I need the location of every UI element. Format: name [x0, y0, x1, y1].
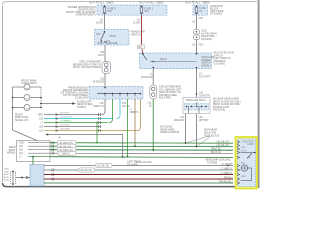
- svg-text:SYSTEM: SYSTEM: [207, 161, 217, 164]
- front lamp bulb 2: [24, 95, 30, 101]
- svg-text:G100: G100: [4, 180, 10, 182]
- svg-text:FRONT: FRONT: [15, 114, 24, 116]
- power distribution center PDC box: [97, 5, 167, 15]
- svg-text:L7 18BK/YL: L7 18BK/YL: [60, 121, 72, 123]
- tail lamp internal switch: [241, 152, 256, 159]
- svg-text:REAR OF ENG: REAR OF ENG: [77, 103, 93, 106]
- svg-text:DIMMER: DIMMER: [202, 60, 212, 62]
- lamp wires: [13, 87, 42, 108]
- svg-text:30A: 30A: [144, 10, 149, 13]
- connector ticks on flasher outputs: [52, 169, 54, 181]
- lamp feed rail: [40, 87, 42, 108]
- svg-text:18VT: 18VT: [98, 54, 104, 57]
- svg-text:12 RD: 12 RD: [133, 22, 140, 25]
- relay label: [204, 129, 220, 138]
- svg-text:(LEFT REAR: (LEFT REAR: [127, 161, 141, 164]
- green drop from row3 to bus1: [96, 123, 98, 143]
- svg-text:OF DASH): OF DASH): [127, 163, 138, 166]
- svg-text:HEADLAMP DELAY: HEADLAMP DELAY: [186, 99, 207, 102]
- hi-lo box label: [213, 98, 241, 112]
- wire below C100: [196, 40, 198, 54]
- wire hi beam down to bus row2: [196, 114, 198, 147]
- green wire from breaker 2 down to bus: [152, 99, 154, 150]
- svg-text:RELAY (ON: RELAY (ON: [204, 132, 217, 135]
- svg-text:18 RD/OR: 18 RD/OR: [141, 76, 153, 79]
- flasher output wire 4 maroon: [44, 178, 233, 180]
- svg-text:18 WT/TN: 18 WT/TN: [199, 95, 210, 98]
- svg-text:DASH, ON DASH PANEL): DASH, ON DASH PANEL): [73, 66, 101, 69]
- box D label: [7, 146, 16, 155]
- splice wire from lamp rail: [40, 102, 76, 105]
- svg-text:HOT AT ALL TIMES: HOT AT ALL TIMES: [89, 1, 114, 5]
- PDC left label: [66, 6, 96, 16]
- flasher output wire 5 dark green: [44, 182, 233, 184]
- tail stop lamp highlighted box: [236, 137, 258, 189]
- hi-lo beam switch outer box: [183, 98, 210, 114]
- wire green L7 from box A down to green bus: [127, 99, 129, 157]
- svg-text:PRK/BU B(L): PRK/BU B(L): [219, 181, 233, 183]
- svg-text:COMPARTMENT): COMPARTMENT): [75, 13, 95, 16]
- wire from headlamp switch to circuit breaker 1: [104, 45, 106, 61]
- wire from dimmer to circuit breaker 2: [152, 69, 154, 86]
- svg-text:L63 18L-GN: L63 18L-GN: [216, 145, 229, 147]
- svg-text:L7 18BK/YL: L7 18BK/YL: [59, 154, 72, 156]
- svg-text:DRL: DRL: [5, 171, 10, 173]
- svg-text:L62 18L-GN: L62 18L-GN: [97, 166, 110, 168]
- front harness wire names: [38, 115, 44, 133]
- svg-text:18VT/WT: 18VT/WT: [199, 119, 210, 122]
- svg-text:BOLSTER): BOLSTER): [159, 97, 171, 100]
- wire label oval output 2: [78, 168, 95, 172]
- flasher top output wire: [44, 165, 233, 167]
- svg-text:W/O: W/O: [5, 169, 10, 171]
- svg-text:40A: 40A: [107, 10, 112, 13]
- tan bend into row5: [137, 99, 141, 131]
- wire label oval on A2: [137, 45, 145, 49]
- svg-text:BK/LT GN: BK/LT GN: [211, 152, 222, 154]
- svg-text:12 RD: 12 RD: [96, 22, 103, 25]
- svg-text:F35: F35: [199, 17, 204, 20]
- svg-text:18 VT/WT: 18 VT/WT: [199, 76, 211, 79]
- svg-text:PRK/BU: PRK/BU: [224, 177, 233, 179]
- front lamp bulb 1: [24, 84, 30, 90]
- svg-text:ORG: ORG: [19, 143, 24, 145]
- junction block label: [210, 5, 224, 16]
- inline wire name labels on harness rows: [60, 113, 72, 131]
- svg-text:DOME: DOME: [111, 43, 118, 45]
- front lamp bulb 3: [24, 105, 30, 111]
- circuit breaker no2: [150, 85, 157, 99]
- wire L50 from box A bends into row1: [102, 99, 106, 115]
- front lamps label block: [15, 114, 29, 122]
- svg-text:F35: F35: [199, 44, 204, 47]
- svg-text:BK/LT BL: BK/LT BL: [211, 149, 221, 151]
- svg-text:ORG: ORG: [38, 115, 43, 117]
- circuit breaker no1: [102, 61, 111, 73]
- wire from dimmer to hi-lo switch: [196, 69, 198, 98]
- connector C100 label: [201, 30, 217, 41]
- tail lamp terminals: [237, 141, 240, 185]
- wire lo beam down to bus row1: [185, 114, 187, 144]
- svg-text:TAIL/STOP: TAIL/STOP: [242, 140, 254, 143]
- svg-text:HEAD: HEAD: [160, 58, 167, 61]
- svg-text:B(L): B(L): [241, 163, 245, 165]
- svg-text:GRD: GRD: [241, 176, 246, 178]
- svg-text:PRK: PRK: [241, 147, 246, 149]
- wire tan from box A down to bus2: [134, 99, 136, 146]
- wire label oval row4: [57, 151, 76, 155]
- svg-text:(EXC: (EXC: [4, 174, 10, 176]
- inline connector ticks x99: [99, 113, 101, 132]
- headlamp dimmer switch box: [140, 53, 215, 69]
- bus row 5 green: [50, 156, 233, 159]
- svg-text:HIGH BEAM: HIGH BEAM: [204, 129, 217, 132]
- svg-text:C2(GRAY): C2(GRAY): [201, 38, 212, 41]
- inline terminal marks x56: [56, 113, 58, 132]
- wire label oval top output: [95, 163, 112, 167]
- headlamp switch box: [95, 30, 130, 46]
- svg-text:L63 18L-GN: L63 18L-GN: [80, 170, 93, 172]
- svg-text:FUSE BLOCK): FUSE BLOCK): [204, 135, 220, 137]
- wire label oval row3: [57, 148, 76, 152]
- rear harness connector box D: [17, 141, 51, 162]
- combination flasher blue box: [30, 165, 44, 187]
- ground diagonal to rear harness: [13, 130, 38, 141]
- wire A2 red from fuse F2 to dimmer switch: [141, 15, 143, 45]
- leader lines to relay label: [186, 136, 211, 143]
- svg-text:(L) RD/WT: (L) RD/WT: [222, 164, 234, 166]
- svg-text:L62 18TN: L62 18TN: [60, 125, 70, 127]
- svg-text:L62 18L-GN: L62 18L-GN: [216, 142, 229, 144]
- bus row 3: [50, 149, 233, 152]
- bus row 4: [50, 152, 233, 155]
- svg-text:COMPT): COMPT): [77, 107, 86, 109]
- svg-text:SAME AS ABOVE: SAME AS ABOVE: [160, 131, 180, 134]
- flasher output wire 2: [44, 169, 233, 171]
- green wire from row5 into flasher: [32, 157, 34, 165]
- circuit breaker no1 label: [73, 61, 102, 70]
- bus row 1: [50, 142, 233, 145]
- wire label oval row2: [57, 144, 76, 148]
- tail wire labels right: [219, 164, 233, 184]
- wire F35 from junction block fuse: [196, 15, 198, 29]
- svg-text:18RD/OR: 18RD/OR: [174, 119, 185, 122]
- svg-text:C2 (BLACK): C2 (BLACK): [75, 97, 88, 100]
- svg-text:COLUMN): COLUMN): [214, 63, 225, 66]
- connector C100: [194, 30, 200, 40]
- wire label oval row1: [57, 141, 76, 145]
- lamp ground rail: [12, 87, 14, 130]
- splice label: [77, 101, 93, 109]
- svg-text:L50 18WT: L50 18WT: [60, 129, 71, 131]
- wire below circuit breaker 1: [104, 74, 106, 87]
- harness row6 wire with bend: [45, 133, 123, 158]
- svg-text:RD: RD: [138, 46, 142, 49]
- connector ticks right of box D: [52, 141, 54, 155]
- svg-text:SWITCH: SWITCH: [131, 33, 141, 36]
- dimmer switch label: [214, 52, 234, 66]
- fuse F1 in PDC: [103, 6, 116, 15]
- svg-text:PACKAGE): PACKAGE): [213, 109, 225, 112]
- svg-text:HOT AT ALL TIMES: HOT AT ALL TIMES: [139, 1, 164, 5]
- svg-text:PARK/TURN: PARK/TURN: [15, 116, 28, 119]
- svg-text:L63 18L-BU: L63 18L-BU: [60, 117, 72, 119]
- wire cyan from box A bends into row2: [117, 99, 121, 119]
- wire green from box A bends into row3: [109, 99, 113, 123]
- ground splice label: [4, 169, 10, 182]
- tail lamp bulb: [241, 165, 252, 181]
- circuit breaker no2 label: [159, 86, 182, 100]
- svg-text:BUX): BUX): [4, 177, 9, 179]
- box A left label: [61, 87, 89, 100]
- junction dots on buses: [152, 149, 154, 151]
- front harness rows: [44, 115, 137, 131]
- svg-text:18BK/YL: 18BK/YL: [130, 111, 140, 114]
- svg-text:SWITCH: SWITCH: [202, 63, 211, 65]
- tail lamp interior pin labels: [241, 147, 247, 178]
- park lamp relay bank box A: [89, 87, 143, 100]
- bus row 2: [50, 145, 233, 148]
- junction block fuse box: [193, 5, 208, 15]
- bus wire labels near tail lamp: [211, 142, 230, 155]
- svg-text:FUSED (LEFT: FUSED (LEFT: [77, 101, 92, 103]
- svg-text:LAMP: LAMP: [247, 143, 254, 146]
- svg-text:HOT AT ALL TIMES: HOT AT ALL TIMES: [185, 1, 210, 5]
- svg-text:OFF: OFF: [96, 34, 101, 36]
- svg-text:L7 18BK/YL: L7 18BK/YL: [220, 168, 233, 170]
- svg-text:18 RD/OR: 18 RD/OR: [92, 81, 104, 84]
- svg-text:HEAD: HEAD: [110, 35, 117, 38]
- ground splice G100: [10, 171, 30, 185]
- fuse F2 in PDC: [140, 6, 153, 15]
- w/o quad label: [160, 126, 180, 135]
- svg-text:BK/TN 18: BK/TN 18: [60, 113, 70, 115]
- svg-text:(W/DRL): (W/DRL): [202, 65, 211, 67]
- svg-text:L7 18BK/YL: L7 18BK/YL: [220, 173, 233, 175]
- svg-text:18WT/TN: 18WT/TN: [93, 105, 104, 108]
- flasher output wire 3 maroon: [44, 174, 233, 176]
- svg-text:OF DASH): OF DASH): [210, 13, 222, 16]
- svg-text:PARK: PARK: [98, 42, 105, 45]
- svg-text:SIGNAL LPS: SIGNAL LPS: [15, 119, 29, 122]
- page frame: [3, 0, 259, 188]
- svg-text:WIRING: WIRING: [7, 152, 16, 155]
- wire A1 from fuse F1 to headlamp switch: [104, 15, 106, 29]
